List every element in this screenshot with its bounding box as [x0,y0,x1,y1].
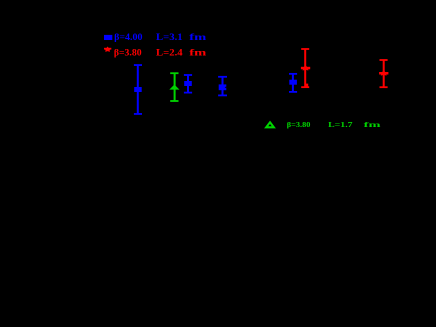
svg-text:L=1.7: L=1.7 [328,120,353,129]
svg-text:fm: fm [189,49,206,59]
svg-text:fm: fm [189,33,206,43]
svg-text:L=3.1: L=3.1 [156,33,183,43]
svg-text:fm: fm [364,120,382,129]
svg-text:β=3.80: β=3.80 [114,49,142,59]
svg-text:β=4.00: β=4.00 [114,33,143,43]
svg-text:β=3.80: β=3.80 [287,120,311,129]
svg-text:L=2.4: L=2.4 [156,49,183,59]
